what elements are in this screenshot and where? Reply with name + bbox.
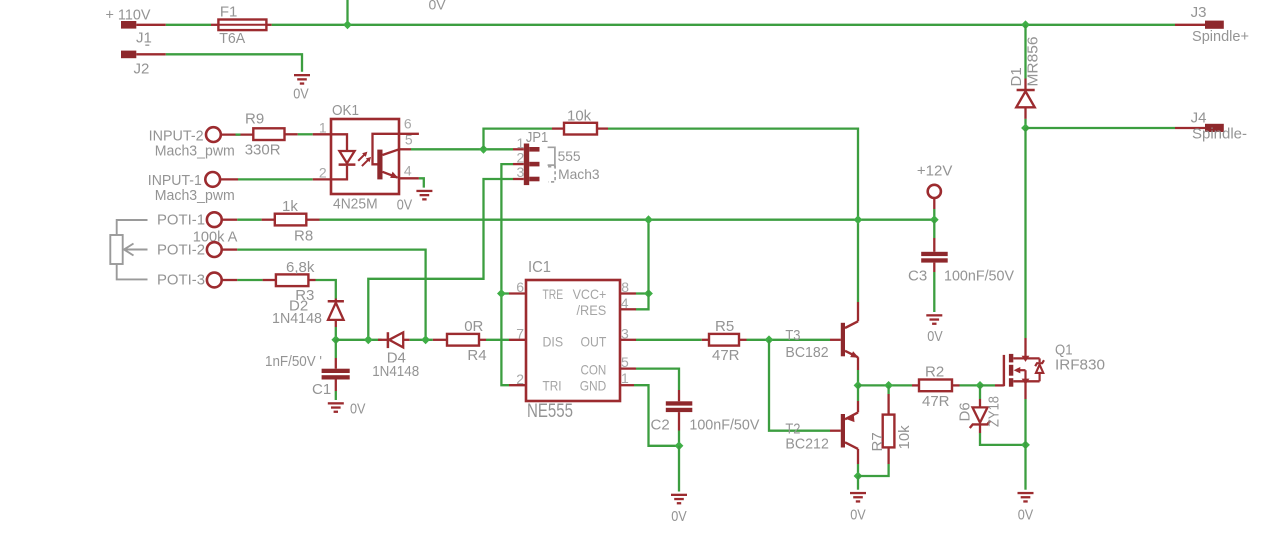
junction on rail at x=347 <box>343 20 352 29</box>
wire down to ground C2 <box>678 446 680 492</box>
svg-text:5: 5 <box>405 132 413 148</box>
wire R8 stub right <box>306 219 319 221</box>
capacitor C1 1nF/50V <box>265 340 350 398</box>
wire J2 stub red <box>136 53 166 55</box>
svg-text:10k: 10k <box>567 107 592 124</box>
wire VCC to junction <box>636 292 649 294</box>
pin 2 TRI stub <box>509 384 526 386</box>
svg-text:C2: C2 <box>651 416 670 433</box>
pin 4 /RES stub <box>620 308 636 310</box>
svg-text:10k: 10k <box>896 425 913 450</box>
svg-text:ZY18: ZY18 <box>986 396 1003 427</box>
junction base node <box>765 335 774 344</box>
diode D6 ZY18 zener <box>957 385 1003 433</box>
svg-text:Spindle+: Spindle+ <box>1192 28 1249 45</box>
wire R3 to D2 <box>308 280 335 299</box>
jumper position bracket Mach3 dashed <box>548 166 600 182</box>
capacitor C2 100nF/50V <box>651 390 760 433</box>
wire R2 stub left <box>912 384 919 386</box>
svg-text:J4: J4 <box>1191 109 1207 126</box>
junction R7 top <box>884 381 893 390</box>
svg-text:OK1: OK1 <box>332 102 359 119</box>
svg-text:1: 1 <box>621 370 629 386</box>
junction C2 ground node <box>675 441 684 450</box>
junction T2 collector ground node <box>854 472 863 481</box>
svg-text:VCC+: VCC+ <box>573 286 607 302</box>
wire D4 to POTI-2 node <box>403 339 433 341</box>
svg-text:POTI-3: POTI-3 <box>157 272 205 289</box>
junction +12V rail end <box>930 215 939 224</box>
ground 0V below T2 <box>850 492 866 524</box>
svg-text:2: 2 <box>516 371 524 387</box>
svg-text:TRI: TRI <box>543 377 562 393</box>
svg-text:0R: 0R <box>464 318 483 335</box>
svg-text:F1: F1 <box>220 3 238 20</box>
svg-text:R5: R5 <box>715 318 734 335</box>
wire R5 stub left <box>702 339 709 341</box>
wire POTI-1 to R8 <box>222 219 275 221</box>
wire J1 stub red <box>136 24 166 26</box>
resistor R9 330R <box>245 111 285 159</box>
wire Q1 source down <box>1024 381 1026 445</box>
junction J4 line <box>1021 124 1030 133</box>
wire D2 node to D4 <box>336 339 382 341</box>
svg-text:+ 110V: + 110V <box>106 7 151 24</box>
wire R5 to T3 base <box>739 339 830 341</box>
svg-text:C3: C3 <box>908 267 927 284</box>
svg-text:IC1: IC1 <box>528 259 551 276</box>
svg-text:1nF/50V ': 1nF/50V ' <box>265 353 322 370</box>
pin 5 stub OK1 <box>399 148 411 150</box>
junction +12V rail at 648 <box>644 215 653 224</box>
potentiometer symbol external <box>110 220 237 279</box>
wire J3 stub red <box>1175 24 1205 26</box>
svg-text:0V: 0V <box>1018 506 1034 523</box>
junction diode node <box>364 335 373 344</box>
wire emitter node to R7 <box>858 384 912 386</box>
connector J4 Spindle- <box>1191 109 1247 142</box>
OK1 light arrows <box>358 152 371 167</box>
OK1 phototransistor <box>373 134 400 180</box>
node POTI-2 pin <box>157 242 222 259</box>
wire OUT to R5 <box>636 339 702 341</box>
jumper position bracket 555 <box>548 147 581 165</box>
op-amp IC1 NE555 box <box>526 259 620 422</box>
svg-text:0V: 0V <box>293 85 309 102</box>
junction D2 node <box>331 335 340 344</box>
wire fuse stub left <box>211 24 218 26</box>
svg-text:Mach3_pwm: Mach3_pwm <box>155 142 235 159</box>
wire JP1 pin2 branch to TRE <box>501 292 509 294</box>
connector J2 <box>121 51 149 78</box>
junction POTI-2 node <box>421 335 430 344</box>
resistor R5 47R <box>709 318 740 364</box>
svg-text:47R: 47R <box>712 347 740 364</box>
svg-text:NE555: NE555 <box>527 401 573 422</box>
wire Q1 drain stub <box>1024 338 1026 358</box>
OK1 internal LED <box>331 134 355 179</box>
wire POTI-3 to R3 <box>222 279 276 281</box>
jumper JP1 <box>513 129 548 185</box>
wire 10k to +12V rail <box>608 129 858 220</box>
wire +12V rail <box>320 219 935 221</box>
svg-text:1N4148: 1N4148 <box>272 310 322 327</box>
op-amp OK1 4N25M optocoupler box <box>331 102 399 213</box>
node POTI-3 pin <box>157 272 222 289</box>
svg-text:1k: 1k <box>282 198 298 215</box>
wire 10k stub left <box>552 127 564 129</box>
svg-text:IRF830: IRF830 <box>1055 356 1105 373</box>
wire VCC junction up to +12V rail <box>647 220 649 294</box>
ground 0V at OK1 <box>397 190 433 214</box>
svg-text:2: 2 <box>517 149 525 165</box>
pin 7 DIS stub <box>509 339 526 341</box>
transistor T2 BC212 <box>785 412 858 452</box>
diode D2 1N4148 <box>272 297 344 327</box>
svg-text:MR856: MR856 <box>1025 37 1042 87</box>
svg-text:100nF/50V: 100nF/50V <box>944 267 1014 284</box>
supply +12V <box>917 162 952 209</box>
wire base node down to T2 <box>769 340 830 431</box>
svg-text:R2: R2 <box>925 364 944 381</box>
diode D1 MR856 <box>1008 37 1042 119</box>
svg-text:R7: R7 <box>869 432 886 451</box>
svg-text:R8: R8 <box>294 228 313 245</box>
wire C2 to ground junction <box>678 431 680 446</box>
wire INPUT-2 to R9 <box>221 133 253 135</box>
svg-text:0V: 0V <box>671 508 687 525</box>
wire fuse stub right <box>266 24 271 26</box>
svg-text:C1: C1 <box>312 381 331 398</box>
wire OK1 pin4 to ground <box>419 178 424 187</box>
junction TRE <box>497 289 506 298</box>
wire POTI-2 to D4 node <box>237 250 425 340</box>
wire D4 stub left red <box>378 339 388 341</box>
wire down to ground T2 <box>857 476 859 490</box>
svg-text:6,8k: 6,8k <box>286 259 315 276</box>
pin 6 TRE stub <box>509 292 526 294</box>
pin 8 VCC stub <box>620 292 636 294</box>
svg-text:2: 2 <box>319 165 327 181</box>
resistor R2 47R <box>919 364 952 410</box>
svg-text:4: 4 <box>621 295 629 311</box>
svg-text:+12V: +12V <box>917 162 952 179</box>
node INPUT-1 pin <box>148 172 235 204</box>
svg-text:Spindle-: Spindle- <box>1192 126 1247 143</box>
resistor R4 0R <box>447 318 487 364</box>
pin 3 OUT stub <box>620 339 636 341</box>
svg-text:J3: J3 <box>1191 4 1207 21</box>
svg-text:7: 7 <box>516 325 524 341</box>
svg-text:OUT: OUT <box>581 334 607 350</box>
wire 10k stub right <box>597 127 608 129</box>
svg-text:1N4148: 1N4148 <box>372 363 419 380</box>
wire /RES to VCC junction <box>636 294 649 310</box>
wire J4 to Q1 drain vertical green <box>1024 128 1026 338</box>
svg-text:8: 8 <box>621 279 629 295</box>
fuse F1 T6A <box>218 3 266 47</box>
wire INPUT-1 to OK1 pin2 <box>220 178 331 180</box>
svg-text:6: 6 <box>404 116 412 132</box>
transistor Q1 IRF830 mosfet <box>1004 341 1105 386</box>
wire top rail left green <box>166 24 211 26</box>
node INPUT-2 pin <box>149 127 235 159</box>
svg-text:1: 1 <box>319 119 327 135</box>
pin 4 stub OK1 <box>399 177 419 179</box>
pin 1 GND stub <box>620 384 634 386</box>
wire T3 collector to +12V rail <box>857 220 859 322</box>
svg-text:100nF/50V: 100nF/50V <box>689 416 759 433</box>
svg-text:DIS: DIS <box>543 334 564 350</box>
svg-text:0V: 0V <box>429 0 447 13</box>
wire OK1 pin5 to JP1 pin1 <box>411 148 513 150</box>
svg-text:Mach3: Mach3 <box>558 166 600 182</box>
connector J1 <box>121 21 152 46</box>
svg-text:T3: T3 <box>785 327 800 344</box>
wire GND to ground junction <box>634 385 679 446</box>
wire C1 to ground <box>335 391 337 400</box>
ground 0V below C3 <box>926 314 942 345</box>
junction source node <box>1021 441 1030 450</box>
svg-text:330R: 330R <box>245 142 281 159</box>
ground 0V at J2 <box>293 74 310 102</box>
wire source node to ground <box>1024 445 1026 490</box>
svg-text:R4: R4 <box>467 347 486 364</box>
junction gate node <box>976 381 985 390</box>
wire J2 green to ground <box>166 54 302 72</box>
svg-text:D1: D1 <box>1008 67 1025 86</box>
capacitor C3 100nF/50V <box>908 220 1014 285</box>
connector J3 Spindle+ <box>1191 4 1250 45</box>
svg-text:555: 555 <box>558 148 581 164</box>
wire T3 emitter down <box>857 357 859 385</box>
svg-text:R9: R9 <box>245 111 264 128</box>
ground 0V below Q1 <box>1018 492 1034 524</box>
node POTI-1 pin <box>157 212 222 229</box>
wire D6 to source node <box>980 433 1026 445</box>
svg-text:D6: D6 <box>957 402 974 421</box>
wire R9 to OK1 pin1 <box>285 133 332 135</box>
wire J4 line green <box>1026 127 1176 129</box>
IC1 pin labels <box>543 286 607 393</box>
wire JP1 pin3 to diode node <box>368 179 513 340</box>
wire D2 to junction <box>335 327 337 340</box>
wire J4 stub red <box>1175 127 1205 129</box>
svg-text:0V: 0V <box>350 400 366 417</box>
wire D1 top green <box>1024 25 1026 79</box>
ground 0V below C2 <box>671 494 687 525</box>
svg-text:47R: 47R <box>922 393 950 410</box>
transistor T3 BC182 <box>785 321 859 361</box>
svg-text:J2: J2 <box>134 61 150 78</box>
svg-text:JP1: JP1 <box>526 129 548 146</box>
svg-text:4: 4 <box>404 162 412 178</box>
junction pin5 net <box>479 145 488 154</box>
svg-text:6: 6 <box>516 279 524 295</box>
svg-text:BC182: BC182 <box>785 344 828 361</box>
pin 6 stub OK1 <box>399 133 419 135</box>
resistor R3 6,8k <box>276 259 315 304</box>
svg-text:4N25M: 4N25M <box>333 195 378 212</box>
diode D4 1N4148 <box>372 332 419 380</box>
wire T2 emitter up to node <box>857 385 859 412</box>
junction +12V rail at 858 <box>854 215 863 224</box>
wire JP1 pin2 to NE555 TRE/TRI <box>501 164 513 385</box>
pin 5 CON stub <box>620 367 636 369</box>
svg-text:TRE: TRE <box>543 286 564 302</box>
wire R4 to DIS <box>479 339 509 341</box>
svg-text:POTI-2: POTI-2 <box>157 242 205 259</box>
svg-text:0V: 0V <box>397 196 413 213</box>
junction VCC node <box>644 289 653 298</box>
wire pin5 net up to 10k <box>484 129 553 150</box>
wire top rail middle green <box>272 24 1175 26</box>
junction top rail at x=1025 <box>1021 20 1030 29</box>
svg-text:5: 5 <box>621 354 629 370</box>
resistor R8 1k <box>275 198 313 244</box>
wire R4 stub left <box>433 339 447 341</box>
svg-text:J1: J1 <box>136 29 152 46</box>
wire gate node to Q1 gate <box>980 384 1004 386</box>
svg-text:3: 3 <box>517 164 525 180</box>
wire CON to C2 <box>636 369 679 390</box>
wire T2 collector down <box>857 449 859 476</box>
svg-text:BC212: BC212 <box>785 435 829 452</box>
svg-text:POTI-1: POTI-1 <box>157 212 205 229</box>
svg-text:/RES: /RES <box>577 302 607 318</box>
wire POTI-2 red stub <box>222 248 237 250</box>
svg-text:T6A: T6A <box>219 30 245 47</box>
resistor R7 10k vertical <box>869 385 913 464</box>
svg-text:CON: CON <box>581 362 607 378</box>
resistor 10k pull-up <box>564 107 597 134</box>
wire vertical up from rail <box>346 0 348 25</box>
svg-text:0V: 0V <box>927 328 943 345</box>
ground 0V at C1 <box>328 400 366 417</box>
wire D1 bottom green <box>1024 119 1026 128</box>
svg-text:3: 3 <box>621 325 629 341</box>
wire R7 bottom to T2 collector node <box>858 464 889 476</box>
wire R2 to gate node <box>952 384 980 386</box>
svg-text:GND: GND <box>580 377 607 393</box>
wire +12V to rail <box>933 209 935 220</box>
svg-text:Mach3_pwm: Mach3_pwm <box>155 187 235 204</box>
svg-text:0V: 0V <box>850 506 866 523</box>
junction emitter node <box>854 381 863 390</box>
wire C3 to ground <box>933 272 935 312</box>
